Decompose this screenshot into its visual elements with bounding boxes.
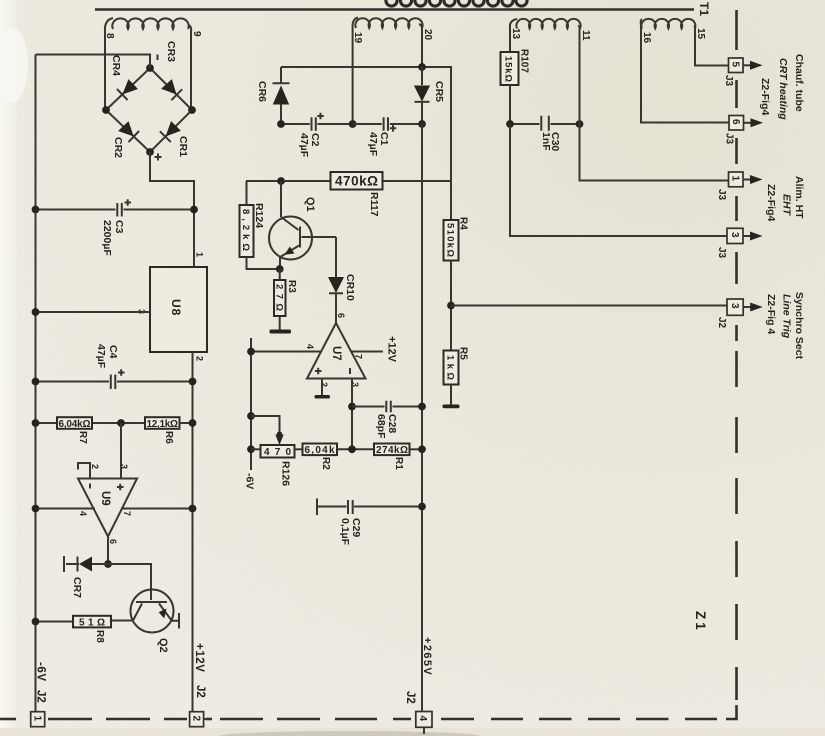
wire pin 11 to J3-1 — [580, 28, 729, 181]
diode CR6 — [256, 67, 290, 124]
svg-text:6: 6 — [108, 539, 118, 544]
svg-text:47µF: 47µF — [367, 132, 379, 157]
wire top row to R4 branch — [281, 67, 451, 220]
svg-text:510kΩ: 510kΩ — [445, 223, 456, 257]
connector J3 pin 6 — [724, 116, 764, 145]
wire pin 15 to J3-5 — [695, 28, 729, 66]
capacitor C1 — [353, 117, 426, 156]
svg-text:R124: R124 — [253, 203, 265, 228]
+265V rail down from C1 row — [421, 124, 423, 712]
svg-text:J3: J3 — [723, 75, 734, 87]
resistor R1 — [374, 444, 426, 471]
diode CR10 — [328, 237, 356, 323]
svg-text:J2: J2 — [716, 317, 727, 329]
svg-text:20: 20 — [422, 29, 433, 41]
transformer T1 primary winding (cut off at top) — [386, 0, 527, 6]
wire U9 pin7 — [122, 508, 193, 510]
resistor R117 470k — [246, 172, 451, 217]
resistor R8 — [32, 616, 111, 643]
svg-text:2200µF: 2200µF — [101, 220, 113, 256]
svg-text:R3: R3 — [286, 280, 297, 293]
capacitor C3 — [32, 199, 198, 256]
dashed border Z1 bottom — [0, 718, 717, 721]
svg-text:CR2: CR2 — [112, 137, 124, 158]
svg-text:15kΩ: 15kΩ — [503, 56, 514, 82]
wire pin 9 to bridge — [190, 31, 192, 110]
svg-text:6,04kΩ: 6,04kΩ — [59, 419, 91, 430]
resistor R124 — [240, 181, 277, 269]
capacitor C29 — [317, 499, 426, 546]
potentiometer R126 — [251, 445, 295, 486]
transformer winding 8-9 — [104, 18, 202, 39]
wire U9 out to Q2 base — [108, 564, 151, 600]
svg-text:6: 6 — [336, 313, 346, 318]
svg-text:274kΩ: 274kΩ — [376, 445, 408, 456]
label Alim. HT / EHT / Z2-Fig4 — [765, 176, 805, 221]
capacitor C28 — [352, 401, 426, 439]
transformer winding 19-20 — [352, 18, 433, 44]
svg-text:7: 7 — [122, 511, 132, 516]
svg-text:J2: J2 — [194, 685, 206, 698]
svg-text:J2: J2 — [35, 690, 47, 703]
diode CR3 — [161, 41, 182, 100]
op-amp U9 — [78, 463, 137, 544]
svg-text:T1: T1 — [697, 2, 711, 16]
ground below R5 — [443, 405, 460, 409]
connector J2 pin 2 bottom — [190, 712, 211, 727]
resistor R2 — [295, 444, 375, 471]
diode CR1 — [160, 121, 189, 157]
svg-text:4: 4 — [305, 344, 315, 349]
svg-text:1kΩ: 1kΩ — [445, 355, 456, 380]
svg-text:2: 2 — [319, 382, 329, 387]
diode CR2 — [112, 121, 139, 158]
wire U8 pin2 down — [192, 352, 194, 712]
wire U7 pin3 down — [351, 379, 353, 450]
svg-text:R107: R107 — [519, 49, 530, 73]
wire pin 20 down — [421, 28, 423, 67]
svg-text:Q1: Q1 — [304, 197, 316, 212]
svg-text:1: 1 — [32, 716, 43, 722]
connector J2 pin 3 — [716, 299, 763, 329]
svg-text:470: 470 — [264, 447, 291, 458]
resistor R5 — [444, 347, 469, 405]
svg-text:6,04k: 6,04k — [305, 445, 335, 456]
svg-text:Line Trig: Line Trig — [781, 294, 793, 339]
svg-text:R6: R6 — [163, 431, 174, 444]
left rail wire — [35, 55, 37, 713]
svg-text:-6V: -6V — [244, 473, 256, 489]
svg-text:U7: U7 — [330, 346, 342, 361]
transformer winding 13-11 — [510, 19, 591, 41]
svg-text:470kΩ: 470kΩ — [335, 174, 378, 189]
label Synchro Sect / Line Trig / Z2-Fig4 — [765, 292, 805, 360]
svg-text:1nF: 1nF — [540, 132, 552, 151]
svg-text:C3: C3 — [113, 220, 125, 234]
svg-text:Z2-Fig 4: Z2-Fig 4 — [765, 294, 777, 334]
resistor R7 — [32, 417, 145, 444]
capacitor C30 — [506, 116, 583, 152]
wire C30 node to J3-3 — [510, 124, 727, 236]
svg-text:6: 6 — [730, 119, 741, 125]
diode CR5 — [414, 67, 445, 124]
resistor R107 — [501, 27, 530, 124]
wire bridge plus down to U8 pin1 — [150, 152, 194, 267]
diode CR7 — [64, 556, 108, 598]
label -6V J2 bottom left — [35, 662, 47, 703]
svg-text:CR1: CR1 — [177, 136, 189, 157]
svg-text:13: 13 — [510, 28, 521, 40]
svg-text:+265V: +265V — [421, 637, 433, 676]
diode CR4 — [110, 55, 138, 100]
transformer T1 core line — [95, 2, 711, 16]
svg-text:2: 2 — [190, 716, 201, 722]
svg-text:Synchro Sect: Synchro Sect — [793, 292, 805, 360]
resistor R6 — [117, 417, 196, 444]
wire U7 pin7 to +12V — [352, 336, 398, 363]
svg-text:C4: C4 — [107, 345, 119, 359]
capacitor C4 — [32, 344, 197, 389]
svg-text:68pF: 68pF — [375, 414, 387, 439]
connector J2 pin 1 bottom — [31, 712, 45, 727]
svg-text:19: 19 — [352, 32, 363, 44]
svg-text:Z2-Fig4: Z2-Fig4 — [759, 78, 771, 115]
wire pin 19 down — [352, 27, 354, 124]
svg-text:0,1µF: 0,1µF — [339, 518, 351, 546]
connector J3 pin 3 — [716, 228, 763, 258]
svg-text:CR4: CR4 — [110, 55, 122, 76]
regulator U8 — [137, 252, 208, 361]
svg-text:-6V: -6V — [35, 662, 47, 682]
op-amp U7 — [305, 313, 366, 387]
svg-text:R5: R5 — [458, 347, 469, 360]
svg-text:47µF: 47µF — [298, 133, 310, 158]
svg-text:R7: R7 — [77, 431, 88, 444]
wire pin 16 to J3-6 — [641, 25, 729, 123]
svg-text:51Ω: 51Ω — [79, 618, 105, 629]
ground below R3 — [270, 330, 292, 334]
svg-text:11: 11 — [580, 30, 591, 41]
wire U9 pin4 — [36, 508, 96, 510]
svg-text:47µF: 47µF — [95, 344, 107, 369]
svg-text:J3: J3 — [724, 133, 735, 145]
U7 pin2 ground — [315, 379, 331, 399]
svg-text:CR10: CR10 — [344, 274, 356, 301]
svg-text:3: 3 — [729, 232, 740, 238]
wire U7 pin4 — [251, 351, 321, 353]
wire U9 pin6 output — [107, 537, 109, 565]
resistor R4 — [444, 217, 469, 351]
bridge rectifier diamond — [102, 55, 196, 161]
svg-text:CR6: CR6 — [256, 81, 268, 102]
svg-text:+12V: +12V — [193, 643, 205, 673]
connector J2 pin 4 bottom — [416, 712, 432, 735]
svg-text:J3: J3 — [716, 189, 727, 201]
connector J3 pin 5 — [723, 58, 763, 87]
wire U9 pin3 — [120, 423, 122, 479]
svg-text:Q2: Q2 — [157, 638, 169, 653]
wire U8 pin3 — [36, 311, 151, 313]
dashed border corner — [726, 705, 737, 719]
svg-text:3: 3 — [729, 303, 740, 309]
svg-text:Alim. HT: Alim. HT — [793, 176, 805, 219]
label +265V / J2 — [404, 637, 433, 704]
potentiometer wiper into R126 — [251, 416, 284, 445]
dashed border Z1 right side — [735, 10, 738, 700]
svg-text:5: 5 — [730, 62, 741, 68]
svg-text:27Ω: 27Ω — [274, 284, 285, 311]
svg-text:9: 9 — [191, 31, 202, 37]
svg-text:U8: U8 — [169, 299, 183, 316]
svg-text:Z1: Z1 — [693, 611, 708, 633]
svg-text:2: 2 — [90, 464, 100, 469]
svg-text:R126: R126 — [280, 461, 292, 486]
svg-text:CRT heating: CRT heating — [777, 58, 789, 120]
svg-text:4: 4 — [78, 511, 88, 516]
svg-text:R4: R4 — [458, 217, 469, 230]
svg-text:16: 16 — [641, 32, 652, 44]
svg-text:Z2-Fig4: Z2-Fig4 — [765, 184, 777, 221]
wire synchro node to J2-3 — [451, 305, 727, 307]
svg-text:EHT: EHT — [781, 194, 793, 217]
svg-text:U9: U9 — [99, 491, 111, 506]
svg-text:7: 7 — [354, 354, 364, 359]
svg-text:15: 15 — [695, 28, 706, 40]
svg-text:4: 4 — [417, 716, 428, 722]
transistor Q2 — [111, 590, 179, 653]
capacitor C2 — [277, 113, 356, 158]
svg-text:CR7: CR7 — [71, 577, 83, 598]
svg-text:1: 1 — [195, 252, 205, 257]
transformer winding 16-15 — [641, 19, 706, 44]
svg-text:J2: J2 — [404, 691, 416, 704]
svg-text:1: 1 — [730, 176, 741, 182]
transistor Q1 — [269, 181, 336, 273]
svg-text:R2: R2 — [320, 457, 331, 470]
svg-text:R1: R1 — [393, 457, 404, 470]
svg-text:R8: R8 — [94, 630, 105, 643]
feedback rail -6V — [244, 338, 256, 489]
svg-text:J3: J3 — [716, 247, 727, 259]
svg-text:12,1kΩ: 12,1kΩ — [147, 419, 179, 430]
wire bridge minus to left rail — [36, 55, 151, 69]
svg-text:Chauf. tube: Chauf. tube — [793, 54, 805, 112]
resistor R3 — [274, 269, 298, 330]
svg-text:R117: R117 — [368, 192, 380, 217]
connector J3 pin 1 — [716, 172, 763, 201]
wire pin 8 to bridge — [104, 31, 106, 110]
svg-text:CR3: CR3 — [165, 41, 177, 62]
svg-text:2: 2 — [195, 356, 205, 361]
label Chauf. tube / CRT heating / Z2-Fig4 — [759, 54, 805, 120]
svg-text:CR5: CR5 — [433, 81, 445, 102]
label +12V J2 bottom — [193, 643, 206, 698]
svg-text:+12V: +12V — [386, 336, 398, 363]
